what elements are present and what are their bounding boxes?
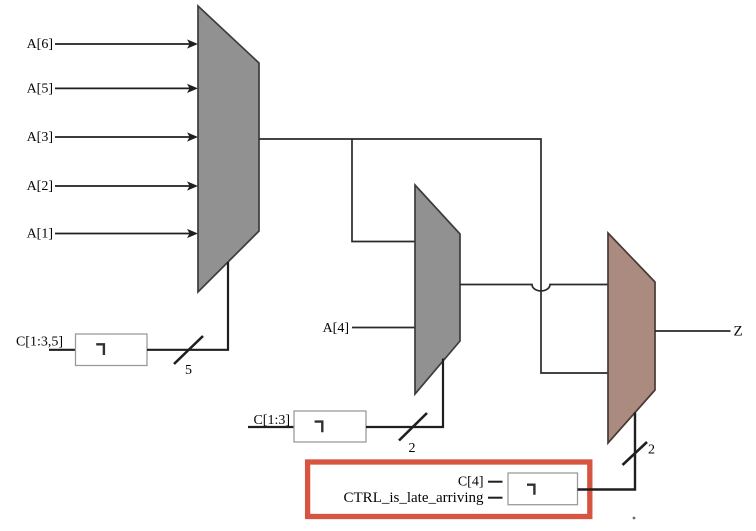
wire stub C[4] bbox=[488, 481, 503, 483]
bus slash (width 5) bbox=[174, 336, 203, 364]
wire A[5] input arrow bbox=[55, 84, 198, 93]
highlight box (red) around late-arriving select logic bbox=[308, 462, 590, 517]
wire C[1:3] to select logic box bbox=[248, 426, 294, 428]
wire A[4] to U2 bbox=[352, 327, 415, 329]
select logic box B3 bbox=[508, 473, 578, 505]
wire A[6] input arrow bbox=[55, 39, 198, 48]
logic symbol in B3 bbox=[527, 485, 534, 495]
logic symbol in B1 bbox=[96, 344, 104, 355]
svg-text:C[4]: C[4] bbox=[458, 475, 484, 490]
svg-text:A[4]: A[4] bbox=[323, 321, 349, 336]
svg-text:A[2]: A[2] bbox=[27, 179, 53, 194]
svg-text:CTRL_is_late_arriving: CTRL_is_late_arriving bbox=[344, 490, 484, 506]
logic symbol in B2 bbox=[315, 422, 323, 433]
bus slash (width 2) bbox=[399, 413, 427, 441]
wire A[2] input arrow bbox=[55, 181, 198, 190]
svg-text:A[5]: A[5] bbox=[27, 82, 53, 97]
wire branch from U1 output down to U2 input bbox=[352, 139, 415, 242]
wire A[1] input arrow bbox=[55, 229, 198, 238]
mux U2 (2-input gray mux) bbox=[415, 185, 460, 394]
svg-text:C[1:3,5]: C[1:3,5] bbox=[16, 335, 63, 350]
wire stub CTRL_is_late_arriving bbox=[488, 497, 503, 499]
svg-text:Z: Z bbox=[734, 324, 743, 340]
wire Z output bbox=[655, 330, 731, 332]
svg-text:A[3]: A[3] bbox=[27, 130, 53, 145]
mux U3 (2-input brown mux, late-arriving select) bbox=[608, 233, 655, 443]
wire B3 to U3 select bbox=[578, 413, 636, 490]
svg-text:2: 2 bbox=[648, 443, 655, 458]
wire U2 output to U3 with hop over vertical bus bbox=[460, 285, 608, 292]
svg-text:2: 2 bbox=[409, 441, 416, 456]
svg-text:C[1:3]: C[1:3] bbox=[253, 413, 290, 428]
select logic box B1 bbox=[76, 334, 148, 366]
wire U1 output to vertical bus bbox=[259, 139, 608, 373]
svg-text:A[6]: A[6] bbox=[27, 37, 53, 52]
select logic box B2 bbox=[294, 411, 366, 442]
bus slash (width 2) bbox=[623, 442, 648, 465]
wire B2 to U2 select bbox=[366, 359, 443, 428]
svg-text:5: 5 bbox=[185, 363, 192, 378]
wire B1 to U1 select bbox=[147, 262, 228, 350]
stray dot artifact bbox=[633, 517, 636, 520]
mux U1 (5-input gray mux) bbox=[198, 6, 259, 292]
wire A[3] input arrow bbox=[55, 132, 198, 141]
svg-text:A[1]: A[1] bbox=[27, 227, 53, 242]
wire C[1:3,5] to select logic box bbox=[49, 349, 76, 351]
